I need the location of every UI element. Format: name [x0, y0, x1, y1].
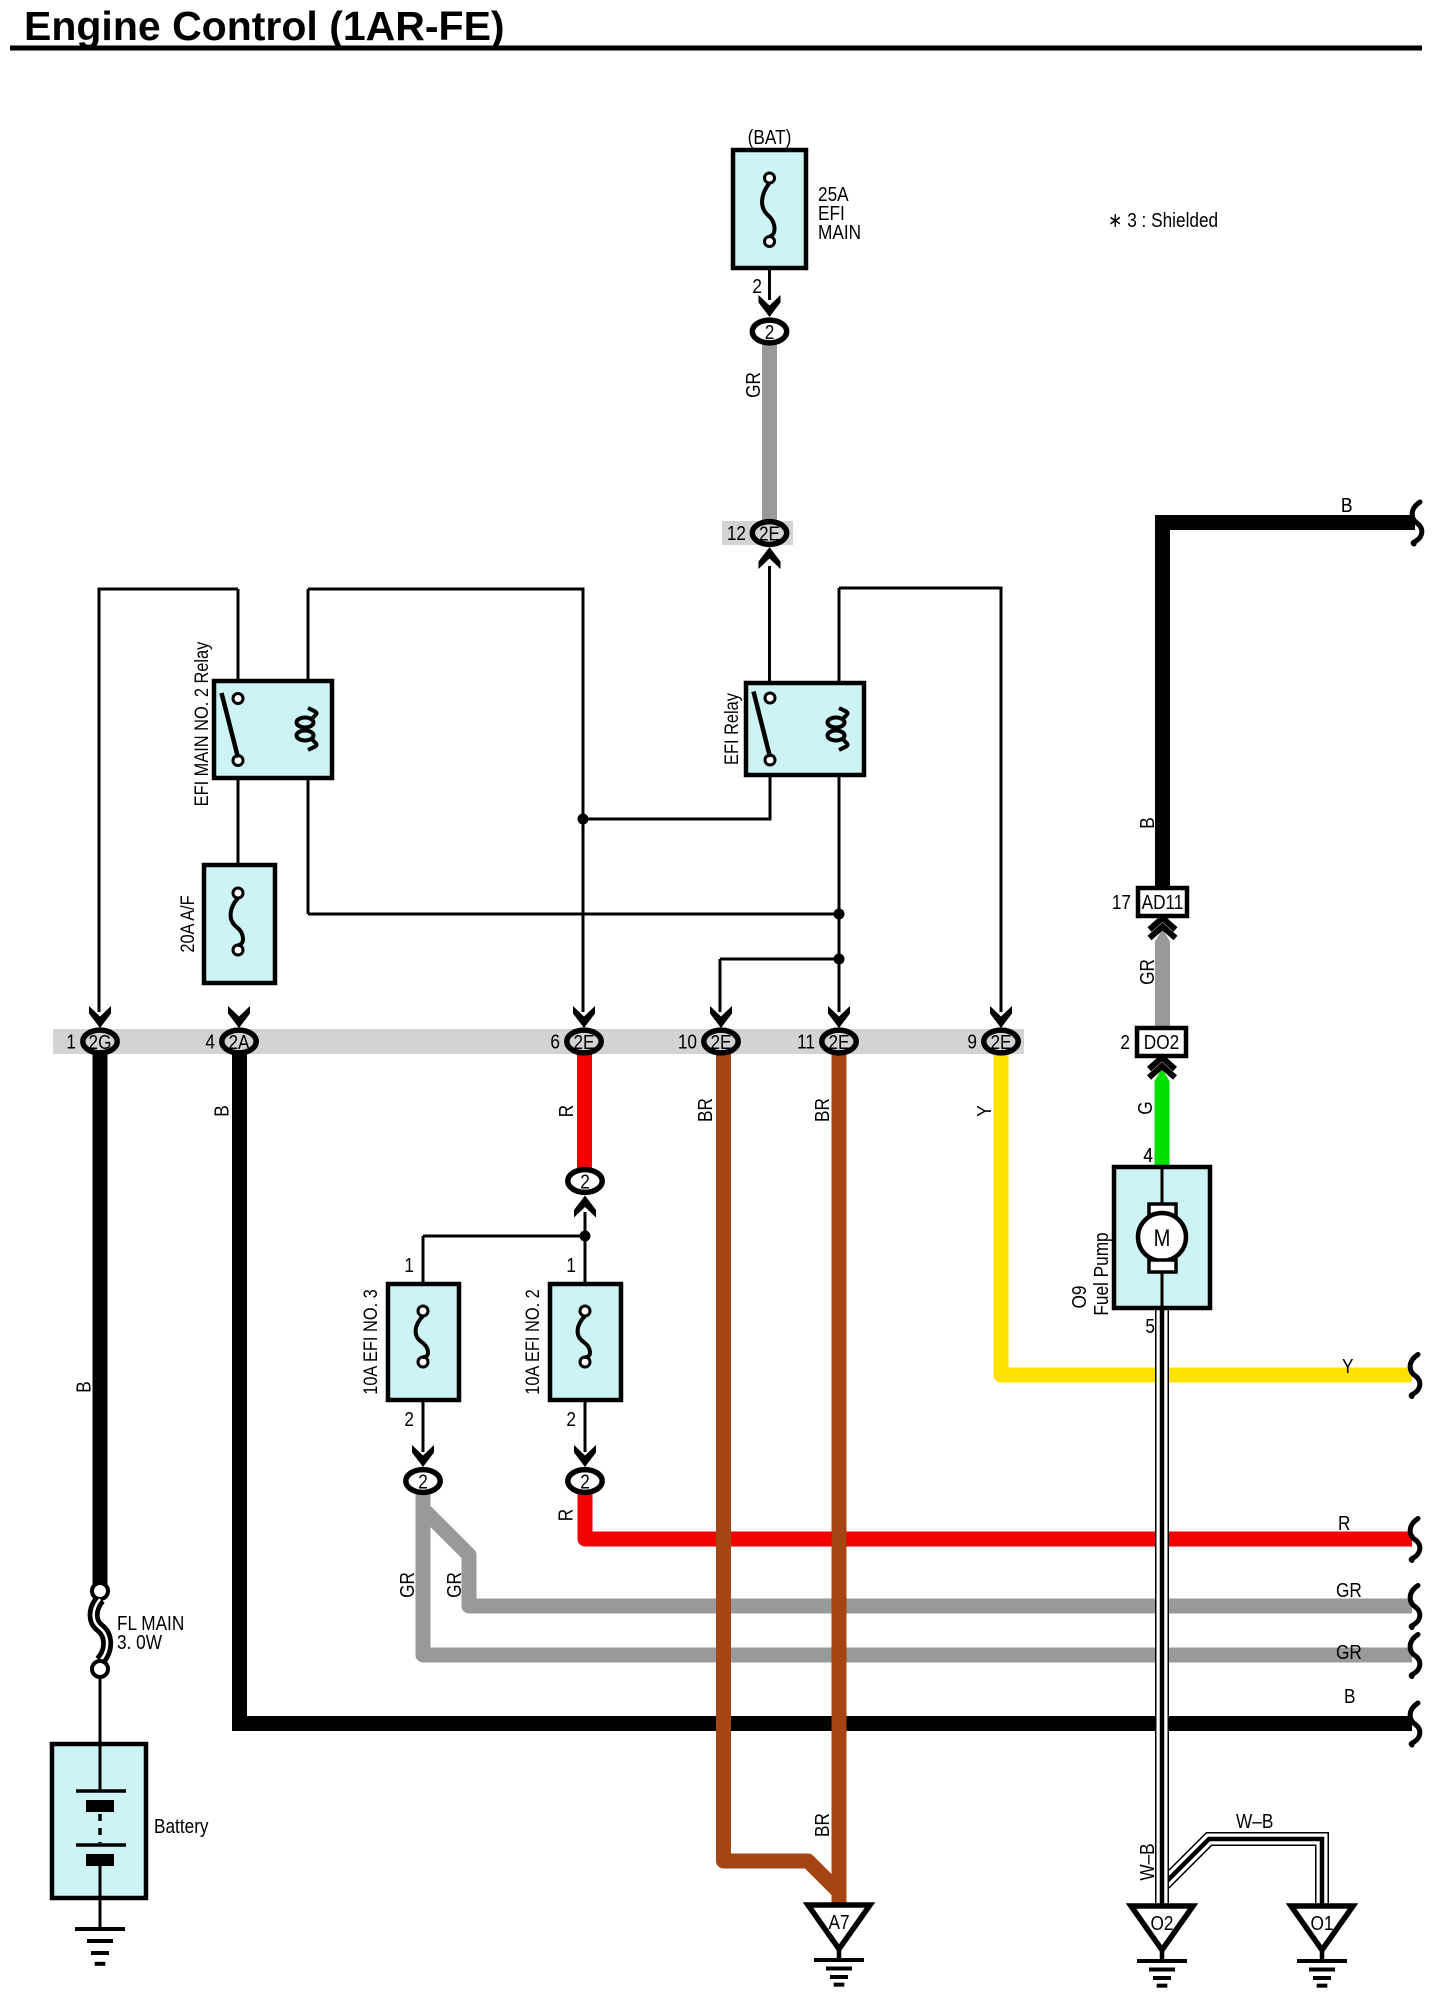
svg-text:B: B [73, 1381, 96, 1392]
svg-text:2G: 2G [89, 1031, 112, 1054]
svg-text:2: 2 [580, 1171, 590, 1194]
svg-text:GR: GR [397, 1572, 420, 1598]
svg-text:20A A/F: 20A A/F [176, 895, 198, 952]
svg-text:Y: Y [1342, 1356, 1354, 1379]
svg-text:M: M [1154, 1224, 1171, 1251]
svg-text:B: B [211, 1105, 234, 1116]
svg-text:2: 2 [418, 1471, 428, 1494]
svg-text:B: B [1344, 1686, 1355, 1709]
svg-text:9: 9 [967, 1031, 977, 1054]
svg-text:O9: O9 [1069, 1286, 1092, 1309]
svg-text:2: 2 [566, 1409, 576, 1432]
svg-text:Fuel Pump: Fuel Pump [1091, 1232, 1114, 1315]
svg-text:B: B [1137, 817, 1160, 828]
svg-text:1: 1 [66, 1031, 76, 1054]
svg-text:BR: BR [812, 1813, 835, 1837]
svg-text:B: B [1341, 495, 1352, 518]
svg-text:2: 2 [1120, 1032, 1130, 1055]
svg-text:1: 1 [566, 1255, 576, 1278]
svg-text:A7: A7 [828, 1912, 849, 1935]
svg-text:Y: Y [974, 1105, 997, 1117]
svg-text:Battery: Battery [154, 1816, 209, 1839]
svg-text:4: 4 [1143, 1145, 1153, 1168]
svg-text:GR: GR [743, 372, 766, 398]
svg-text:11: 11 [797, 1031, 815, 1054]
svg-text:Engine Control (1AR-FE): Engine Control (1AR-FE) [24, 3, 505, 49]
svg-text:6: 6 [550, 1031, 560, 1054]
svg-text:O2: O2 [1151, 1913, 1174, 1936]
svg-text:BR: BR [812, 1098, 835, 1122]
svg-text:2E: 2E [828, 1031, 849, 1054]
svg-text:G: G [1135, 1101, 1158, 1114]
svg-text:10: 10 [678, 1031, 697, 1054]
svg-text:∗ 3 : Shielded: ∗ 3 : Shielded [1108, 210, 1218, 233]
svg-text:O1: O1 [1311, 1913, 1334, 1936]
svg-text:BR: BR [695, 1098, 718, 1122]
svg-text:R: R [555, 1509, 578, 1521]
svg-text:3. 0W: 3. 0W [117, 1632, 162, 1655]
svg-text:2: 2 [404, 1409, 414, 1432]
svg-text:10A EFI NO. 2: 10A EFI NO. 2 [521, 1289, 543, 1395]
svg-text:2: 2 [765, 321, 775, 344]
svg-text:2A: 2A [228, 1031, 249, 1054]
svg-text:10A EFI NO. 3: 10A EFI NO. 3 [359, 1289, 381, 1395]
svg-text:12: 12 [727, 523, 746, 546]
svg-text:R: R [556, 1105, 579, 1117]
svg-text:2E: 2E [573, 1031, 594, 1054]
svg-text:DO2: DO2 [1144, 1032, 1179, 1055]
svg-text:GR: GR [1137, 959, 1160, 985]
svg-text:GR: GR [1336, 1580, 1362, 1603]
svg-text:17: 17 [1112, 892, 1131, 915]
svg-text:R: R [1338, 1513, 1350, 1536]
svg-text:5: 5 [1145, 1316, 1155, 1339]
svg-text:4: 4 [205, 1031, 215, 1054]
svg-text:AD11: AD11 [1142, 892, 1184, 915]
svg-text:EFI MAIN NO. 2 Relay: EFI MAIN NO. 2 Relay [190, 642, 212, 807]
svg-text:2: 2 [580, 1471, 590, 1494]
svg-text:2E: 2E [759, 523, 780, 546]
svg-text:(BAT): (BAT) [748, 127, 792, 150]
svg-text:EFI Relay: EFI Relay [720, 693, 742, 765]
svg-text:W–B: W–B [1236, 1811, 1273, 1834]
svg-text:2E: 2E [710, 1031, 731, 1054]
svg-text:2: 2 [752, 276, 762, 299]
svg-text:MAIN: MAIN [818, 222, 861, 245]
svg-text:GR: GR [1336, 1642, 1362, 1665]
svg-text:GR: GR [444, 1572, 467, 1598]
svg-text:W–B: W–B [1137, 1843, 1160, 1880]
svg-text:2E: 2E [990, 1031, 1011, 1054]
svg-text:1: 1 [404, 1255, 414, 1278]
